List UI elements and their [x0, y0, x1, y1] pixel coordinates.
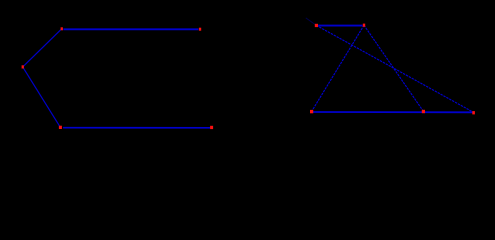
wire edge BL-BM-BR (bottom horizontal)	[312, 111, 474, 113]
wire edge A: TR-BL diagonal	[312, 25, 364, 111]
wire edge TL-L (upper-left diagonal)	[23, 29, 62, 67]
wire edge B: TL-BR diagonal	[316, 25, 473, 112]
node BL (right graph)	[310, 110, 313, 113]
wire edge L-BL (lower-left diagonal)	[23, 67, 61, 128]
node BL (left graph)	[59, 126, 62, 129]
node TL (right graph)	[315, 24, 318, 27]
node TR (left graph)	[199, 28, 201, 31]
wire edge TL-TR (top horizontal)	[63, 28, 198, 30]
wire overshoot of edge B beyond TL vertex	[306, 18, 317, 26]
node BR (left graph)	[210, 126, 213, 129]
node BR (right graph)	[472, 111, 475, 114]
wire edge C: TR-BM diagonal	[364, 25, 423, 111]
wire edge TL-TR (top horizontal)	[318, 25, 362, 27]
node BM (right graph)	[422, 110, 425, 113]
node L (left graph)	[22, 65, 24, 68]
node TL (left graph)	[61, 27, 63, 30]
node TR (right graph)	[363, 24, 365, 27]
wire edge BL-BR (bottom horizontal)	[63, 127, 210, 129]
